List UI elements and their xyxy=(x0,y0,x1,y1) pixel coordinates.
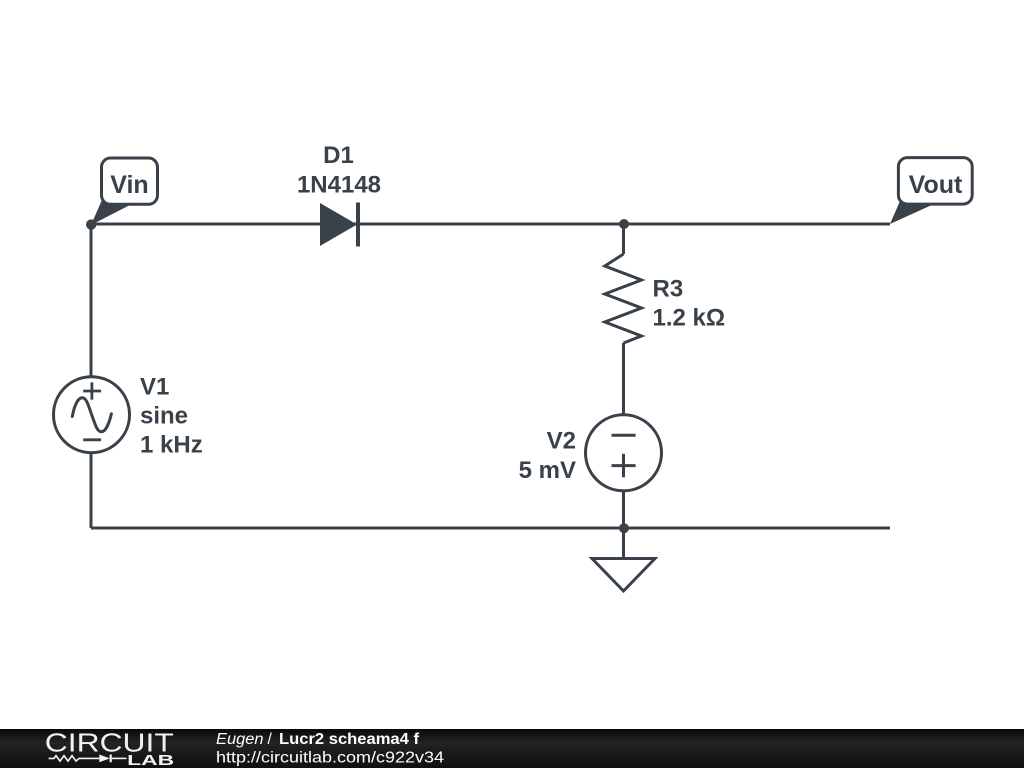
CircuitLab logo schematic squiggle xyxy=(49,755,127,763)
node B : top junction dot at resistor xyxy=(619,219,629,229)
svg-text:sine: sine xyxy=(140,403,188,430)
voltage source V1 xyxy=(54,377,130,453)
diode D1 xyxy=(297,142,381,247)
wire bottom rail horizontal xyxy=(91,527,890,530)
svg-text:D1: D1 xyxy=(323,142,354,169)
net label Vin xyxy=(91,158,158,225)
wire V2 bottom to ground rail xyxy=(622,491,625,559)
wire junction to resistor top xyxy=(622,224,625,254)
wire left vertical from Vin node to V1 top xyxy=(90,224,93,377)
svg-text:5 mV: 5 mV xyxy=(519,457,576,484)
svg-text:Eugen: Eugen xyxy=(216,731,264,748)
wire V1 bottom to bottom rail xyxy=(90,453,93,529)
svg-text:V2: V2 xyxy=(547,427,576,454)
resistor R3 xyxy=(605,254,725,343)
svg-text:V1: V1 xyxy=(140,374,169,401)
node C : bottom junction dot at ground xyxy=(619,523,629,533)
svg-text:Lucr2 scheama4 f: Lucr2 scheama4 f xyxy=(279,731,420,748)
footer bar xyxy=(0,729,1024,768)
ground xyxy=(592,559,655,592)
svg-text:R3: R3 xyxy=(653,275,684,302)
node A : Vin junction dot xyxy=(86,219,96,229)
net label Vout xyxy=(890,158,972,224)
svg-text:1N4148: 1N4148 xyxy=(297,172,381,199)
svg-text:1.2 kΩ: 1.2 kΩ xyxy=(653,304,726,331)
svg-text:LAB: LAB xyxy=(127,753,174,768)
voltage source V2 xyxy=(586,415,662,491)
svg-text:/: / xyxy=(268,731,273,748)
wire top horizontal Vin to Vout xyxy=(91,223,890,226)
svg-text:Vin: Vin xyxy=(110,171,148,199)
wire resistor bottom to V2 top xyxy=(622,343,625,415)
svg-text:http://circuitlab.com/c922v34: http://circuitlab.com/c922v34 xyxy=(216,750,444,767)
svg-text:Vout: Vout xyxy=(909,171,963,199)
svg-text:1 kHz: 1 kHz xyxy=(140,432,203,459)
